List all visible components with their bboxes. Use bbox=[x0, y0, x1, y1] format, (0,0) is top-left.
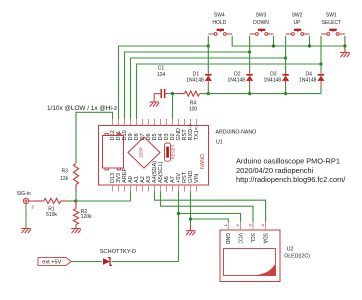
junction D3/anode bus bbox=[284, 92, 287, 95]
wire R3 bottom lead bbox=[75, 185, 77, 193]
wire SW1 right vertical bbox=[344, 36, 346, 46]
switch SW1 SELECT bbox=[321, 29, 345, 36]
wire junction to R2 bbox=[75, 201, 77, 209]
svg-text:2020/04/20 radiopenchi: 2020/04/20 radiopenchi bbox=[236, 166, 314, 175]
junction bus1/SW vertical bbox=[207, 44, 210, 47]
junction bus4/SW vertical bbox=[319, 62, 322, 65]
ground J bbox=[21, 229, 31, 234]
wire schottky to +5V riser bbox=[112, 261, 179, 263]
ground R2 bbox=[71, 229, 81, 234]
wire bus3 pin D9 to SW vertical bbox=[131, 58, 286, 119]
svg-text:SW4: SW4 bbox=[214, 13, 225, 19]
junction SW1/ground bus bbox=[343, 44, 346, 47]
U2 screen bbox=[224, 249, 276, 276]
wire bus2 pin D10 to SW vertical bbox=[125, 52, 250, 119]
wire pin +5V down bbox=[178, 192, 180, 262]
wire bus4 pin D8 to SW vertical bbox=[137, 64, 322, 119]
wire R1 to junction bbox=[67, 200, 76, 202]
svg-text:R4: R4 bbox=[190, 100, 197, 106]
wire flag to schottky bbox=[71, 261, 102, 263]
svg-text:SW2: SW2 bbox=[292, 13, 303, 19]
svg-text:104: 104 bbox=[157, 72, 166, 78]
wire SW1 left vertical to D4 bbox=[320, 36, 322, 72]
svg-text:J: J bbox=[31, 205, 33, 210]
svg-text:TX1<-: TX1<- bbox=[194, 125, 200, 141]
wire A5 to OLED SCL bbox=[161, 192, 254, 223]
switch SW4 HOLD bbox=[208, 29, 232, 36]
wire bus1 pin D11 to SW vertical bbox=[119, 46, 209, 119]
svg-text:U1: U1 bbox=[216, 139, 223, 145]
svg-text:1N4148: 1N4148 bbox=[186, 78, 204, 84]
svg-text:100: 100 bbox=[189, 107, 198, 113]
ground C1 bbox=[150, 102, 160, 107]
svg-text:http://radiopench.blog96.fc2.c: http://radiopench.blog96.fc2.com/ bbox=[236, 175, 346, 184]
wire R4 left lead bbox=[177, 93, 185, 95]
svg-text:SDA: SDA bbox=[262, 233, 268, 244]
svg-text:SW3: SW3 bbox=[256, 13, 267, 19]
svg-text:1N4148: 1N4148 bbox=[264, 78, 282, 84]
svg-text:12k: 12k bbox=[60, 176, 69, 182]
wire C1 to ground bbox=[154, 94, 161, 102]
junction SW2/ground bus bbox=[308, 44, 311, 47]
wire R3 to pin D12 bbox=[76, 112, 113, 163]
wire J to ground bbox=[25, 204, 27, 229]
svg-text:HOLD: HOLD bbox=[212, 20, 226, 26]
wire pin GND down bbox=[190, 192, 192, 227]
svg-text:D4: D4 bbox=[305, 72, 312, 78]
wire SW2 right vertical bbox=[309, 36, 311, 46]
wire D1 anode to bus bbox=[207, 86, 209, 94]
wire ground stub bbox=[344, 46, 346, 52]
junction bus2/SW vertical bbox=[248, 50, 251, 53]
svg-text:SCHOTTKY-D: SCHOTTKY-D bbox=[100, 249, 136, 255]
U1 top pin labels bbox=[110, 124, 200, 141]
junction bus3/SW vertical bbox=[284, 56, 287, 59]
svg-text:VIN: VIN bbox=[194, 174, 200, 183]
U1 bottom pin stubs bbox=[113, 185, 197, 192]
wire D3 anode to bus bbox=[285, 86, 287, 94]
svg-text:328P: 328P bbox=[139, 147, 144, 158]
svg-text:1N4148: 1N4148 bbox=[228, 78, 246, 84]
svg-text:D1: D1 bbox=[193, 72, 200, 78]
U2 pin stubs bbox=[228, 222, 265, 230]
diode D3 bbox=[282, 71, 289, 86]
resistor R1 bbox=[44, 198, 61, 203]
ground switches bbox=[340, 53, 350, 58]
svg-text:4: 4 bbox=[260, 224, 265, 227]
wire SW4 left vertical to D1 bbox=[207, 36, 209, 72]
switch SW3 DOWN bbox=[250, 29, 274, 36]
U1 top pin stubs bbox=[113, 119, 197, 126]
capacitor C1 bbox=[161, 89, 164, 98]
junction C1/R4/D2 bbox=[171, 92, 174, 95]
op-amp U1 ARDUINO-NANO body bbox=[99, 126, 209, 186]
svg-text:U2: U2 bbox=[287, 246, 294, 252]
svg-text:RESET: RESET bbox=[171, 144, 176, 159]
U2 waveform bbox=[253, 263, 276, 275]
wire diode anode bus bbox=[200, 93, 322, 95]
svg-text:R3: R3 bbox=[61, 169, 68, 175]
svg-text:120k: 120k bbox=[81, 214, 92, 220]
resistor R4 bbox=[185, 91, 200, 96]
U2 pin labels bbox=[224, 233, 267, 245]
wire GND stub bbox=[190, 226, 192, 231]
svg-text:ext +5V: ext +5V bbox=[42, 260, 61, 266]
svg-text:NANO: NANO bbox=[200, 154, 206, 169]
svg-text:SW1: SW1 bbox=[326, 13, 337, 19]
svg-text:Arduino oasilloscope PMO-RP1: Arduino oasilloscope PMO-RP1 bbox=[236, 157, 340, 166]
svg-text:510k: 510k bbox=[46, 212, 57, 218]
wire J to R1 bbox=[34, 200, 44, 202]
U1 328P chip diamond bbox=[128, 137, 160, 168]
svg-text:1/10x @LOW / 1x @Hi-z: 1/10x @LOW / 1x @Hi-z bbox=[47, 105, 117, 112]
wire A4 to OLED SDA bbox=[155, 192, 266, 223]
svg-text:2: 2 bbox=[235, 224, 240, 227]
wire SW3 right vertical bbox=[273, 36, 275, 46]
junction SW3/ground bus bbox=[272, 44, 275, 47]
junction GND/OLED bbox=[189, 217, 192, 220]
diode D2 bbox=[246, 71, 253, 86]
svg-text:VCC: VCC bbox=[236, 233, 242, 244]
svg-text:D3: D3 bbox=[270, 72, 277, 78]
svg-text:UP: UP bbox=[294, 20, 302, 26]
wire +5V to OLED VCC bbox=[179, 214, 241, 223]
wire D2 anode to bus bbox=[249, 86, 251, 94]
junction D2/anode bus bbox=[248, 92, 251, 95]
wire SW2 left vertical to D3 bbox=[285, 36, 287, 72]
svg-text:SELECT: SELECT bbox=[322, 20, 341, 26]
svg-text:1N4148: 1N4148 bbox=[299, 78, 317, 84]
U1 USB connector bbox=[103, 134, 124, 170]
svg-text:SCL: SCL bbox=[249, 233, 255, 243]
U2 pin numbers bbox=[223, 224, 265, 227]
svg-text:C1: C1 bbox=[158, 65, 165, 71]
net flag ext +5V bbox=[38, 258, 71, 266]
svg-text:D2: D2 bbox=[234, 72, 241, 78]
svg-text:GND: GND bbox=[224, 233, 230, 245]
junction R1/R2/R3/A0 bbox=[74, 199, 77, 202]
junction D1/anode bus bbox=[207, 92, 210, 95]
svg-text:3: 3 bbox=[248, 224, 253, 227]
connector J SIG-in bbox=[23, 198, 28, 203]
svg-text:DOWN: DOWN bbox=[253, 20, 269, 26]
svg-text:SIG-in: SIG-in bbox=[17, 191, 31, 197]
resistor R3 bbox=[73, 164, 78, 185]
wire R1 lead bbox=[61, 200, 67, 202]
resistor R2 bbox=[73, 209, 78, 225]
wire GND to OLED pin1 bbox=[191, 219, 229, 222]
wire SW3 left vertical to D2 bbox=[249, 36, 251, 72]
switch SW2 UP bbox=[286, 29, 310, 36]
diode D4 bbox=[318, 71, 325, 86]
svg-text:OLED(I2C): OLED(I2C) bbox=[284, 253, 310, 259]
ground GND pin bbox=[186, 231, 196, 236]
U1 bottom pin labels bbox=[110, 161, 200, 183]
wire switches ground bus bbox=[232, 36, 345, 46]
diode schottky bbox=[103, 258, 110, 265]
U1 reset button bbox=[165, 143, 171, 161]
svg-text:1: 1 bbox=[223, 224, 228, 227]
wire D4 anode to bus bbox=[320, 86, 322, 94]
wire junction down to pin D2 bbox=[172, 94, 174, 119]
wire R2 to ground bbox=[75, 225, 77, 229]
display U2 OLED body bbox=[220, 230, 280, 282]
junction +5V/VCC bbox=[177, 212, 180, 215]
wire junction to R4 bbox=[173, 93, 178, 95]
diode D1 bbox=[205, 71, 212, 86]
wire R3 to junction bbox=[75, 192, 77, 201]
svg-text:ARDUINO-NANO: ARDUINO-NANO bbox=[216, 129, 257, 135]
wire junction to pin A0 bbox=[76, 192, 131, 202]
